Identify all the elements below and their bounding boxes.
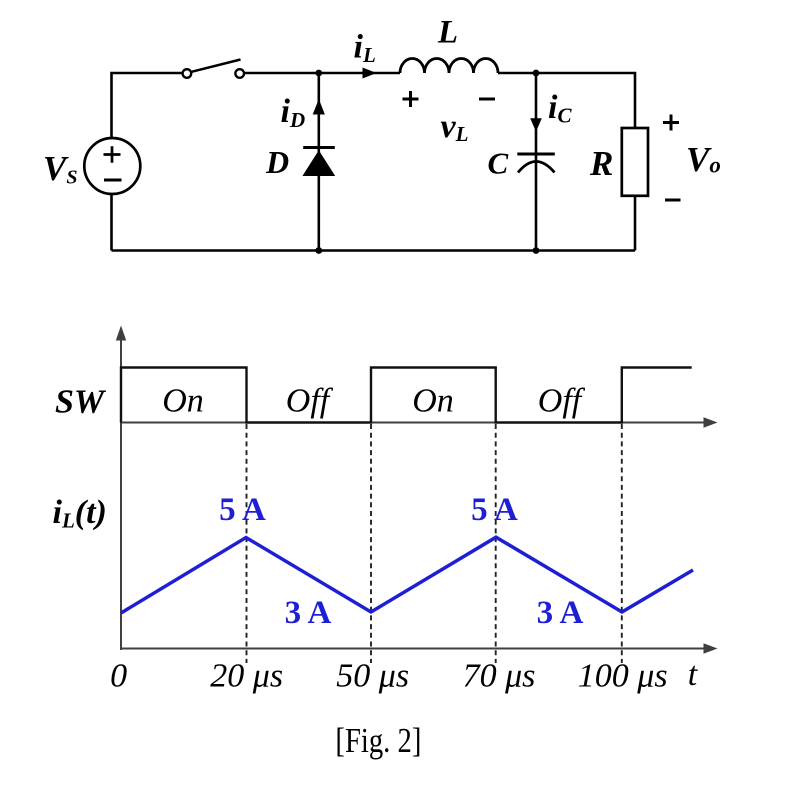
diode D anode triangle: [302, 150, 335, 176]
dashed gridline 20us: [246, 424, 248, 663]
svg-text:iD: iD: [281, 93, 306, 132]
svg-text:Vo: Vo: [686, 140, 721, 179]
svg-text:100 μs: 100 μs: [578, 658, 668, 695]
diode branch wire: [317, 73, 320, 251]
node: cap-bottom junction: [533, 247, 540, 254]
dashed gridline 50us: [370, 424, 372, 663]
svg-text:0: 0: [110, 658, 127, 695]
current arrow iL: [363, 68, 377, 79]
current arrow iC: [530, 118, 542, 132]
node B (inductor/cap/load junction): [533, 70, 540, 77]
svg-text:R: R: [589, 144, 613, 183]
iL(t) waveform: [121, 537, 693, 613]
svg-text:On: On: [162, 383, 204, 420]
wire: node A to inductor: [319, 72, 400, 75]
dashed gridline 100us: [621, 424, 623, 663]
svg-text:D: D: [265, 144, 289, 180]
svg-text:Off: Off: [538, 383, 586, 420]
svg-text:3 A: 3 A: [537, 595, 584, 631]
current arrow iD: [313, 99, 325, 115]
svg-text:5 A: 5 A: [471, 492, 518, 528]
axis: iL time axis: [121, 643, 718, 653]
svg-text:50 μs: 50 μs: [336, 658, 409, 695]
node A (switch/diode/inductor junction): [315, 70, 322, 77]
svg-text:3 A: 3 A: [285, 595, 332, 631]
svg-text:VS: VS: [43, 149, 77, 189]
node: diode-bottom junction: [315, 247, 322, 254]
wire: source top to switch: [112, 73, 182, 138]
wire: switch to node A: [244, 72, 318, 75]
wire: source bottom drop: [110, 194, 113, 251]
svg-text:iC: iC: [548, 89, 572, 128]
polarity - (Vo bottom): [665, 199, 681, 202]
svg-text:iL(t): iL(t): [53, 494, 107, 533]
svg-text:On: On: [412, 383, 454, 420]
axis: SW time axis: [121, 417, 718, 427]
svg-text:[Fig. 2]: [Fig. 2]: [335, 721, 421, 760]
polarity - (vL right): [479, 98, 495, 101]
svg-text:vL: vL: [441, 108, 469, 146]
wire: inductor to node B: [498, 72, 536, 75]
svg-text:iL: iL: [354, 29, 376, 68]
capacitor C curved plate: [518, 162, 555, 173]
polarity + (vL left): [403, 91, 419, 107]
voltage source VS: [84, 138, 140, 194]
SW waveform: [121, 368, 692, 423]
wire: load bottom drop: [634, 196, 637, 251]
switch SW (open SPST): [183, 60, 244, 78]
wire: bottom return: [112, 249, 636, 252]
capacitor branch wire: [535, 73, 538, 251]
svg-text:C: C: [488, 146, 509, 181]
axis: shared vertical axis: [116, 326, 126, 651]
resistor R (load): [622, 128, 648, 196]
svg-text:Off: Off: [286, 383, 334, 420]
svg-text:5 A: 5 A: [219, 492, 266, 528]
dashed gridline 70us: [495, 424, 497, 663]
svg-text:70 μs: 70 μs: [463, 658, 536, 695]
polarity + (Vo top): [663, 115, 679, 131]
inductor L (winding): [400, 59, 498, 73]
diode D cathode bar: [303, 146, 335, 149]
capacitor C top plate: [517, 153, 555, 156]
svg-text:t: t: [688, 656, 699, 693]
svg-text:20 μs: 20 μs: [210, 658, 283, 695]
svg-text:L: L: [437, 15, 458, 51]
wire: node B to load corner and down: [536, 73, 635, 128]
svg-text:SW: SW: [55, 384, 107, 421]
